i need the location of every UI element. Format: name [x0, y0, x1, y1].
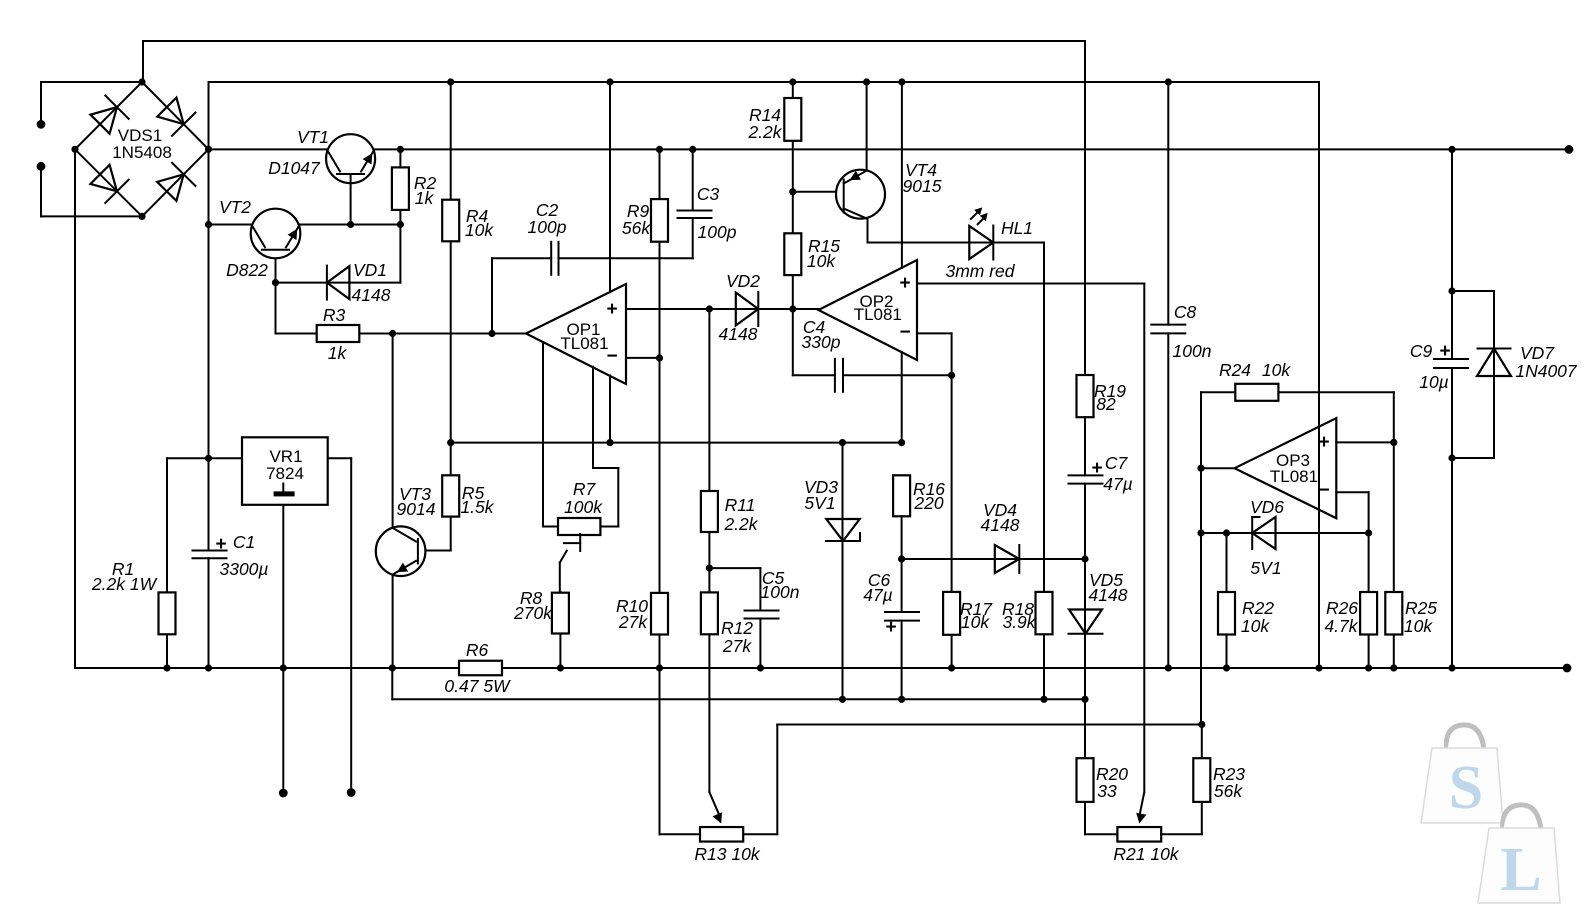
svg-text:−: − — [606, 346, 617, 367]
wire: R2 / VD1 column (x=400.4) — [399, 149, 401, 282]
diode VD5 — [1069, 610, 1103, 634]
wire: VT2 base lead — [275, 250, 277, 283]
svg-text:10k: 10k — [1241, 616, 1270, 636]
wire: OP1 null pin to R7 right — [593, 367, 618, 527]
resistor R26 — [1360, 592, 1377, 635]
diode VD4 — [995, 545, 1020, 573]
wire: OP1 + input to VD2/OP2 (y=309) — [626, 308, 819, 310]
svg-text:D1047: D1047 — [268, 158, 321, 178]
svg-text:10k: 10k — [1404, 616, 1433, 636]
svg-text:HL1: HL1 — [1001, 218, 1033, 238]
wire: OP2 V+ pin — [901, 82, 903, 268]
pot R21 wiper arrow — [1136, 813, 1146, 824]
wire: OP1 - input (y=358) — [626, 357, 660, 359]
wire: bridge minus column (x=75) — [74, 149, 76, 668]
resistor R14 — [784, 98, 801, 141]
bridge diode VDS1d (bottom to right) — [157, 163, 195, 201]
wire: R14/R15/C4 column (x=792.8) — [792, 82, 794, 375]
wire: R22 column — [1226, 533, 1228, 668]
op-amp OP1 — [526, 284, 626, 384]
capacitor C8 — [1151, 325, 1185, 334]
svg-text:VT2: VT2 — [219, 197, 251, 217]
svg-text:7824: 7824 — [266, 464, 304, 483]
wire: C9 column (x=1452) — [1451, 149, 1453, 668]
wire: R13 left to ground rail — [660, 668, 701, 834]
svg-text:VD1: VD1 — [353, 260, 387, 280]
svg-text:2.2k: 2.2k — [747, 122, 782, 142]
wire: VT4 emitter to +24V rail — [866, 82, 868, 171]
wire: VT1 base to VT2 emitter node — [350, 174, 352, 225]
resistor R11 — [701, 491, 718, 532]
svg-text:33: 33 — [1097, 781, 1117, 801]
wire: R7 wiper to R8 — [560, 534, 580, 668]
svg-text:C1: C1 — [233, 532, 255, 552]
svg-text:10k: 10k — [807, 251, 836, 271]
wire: VT3 collector column (x=392.6) — [392, 334, 394, 669]
wire: bottom ground rail — [75, 667, 1567, 669]
svg-text:C8: C8 — [1174, 302, 1197, 322]
svg-text:3300µ: 3300µ — [219, 559, 268, 579]
op-amp OP3 — [1235, 418, 1337, 518]
svg-text:+: + — [1318, 432, 1329, 453]
capacitor C4 — [835, 359, 843, 392]
svg-text:56k: 56k — [622, 218, 651, 238]
LED HL1 — [969, 207, 993, 259]
svg-text:47µ: 47µ — [863, 585, 893, 605]
wire: C5 branch — [709, 568, 760, 668]
svg-text:1N4007: 1N4007 — [1515, 361, 1578, 381]
svg-text:3.9k: 3.9k — [1002, 612, 1036, 632]
svg-text:27k: 27k — [618, 612, 648, 632]
svg-text:VD6: VD6 — [1250, 497, 1284, 517]
resistor R8 — [552, 593, 569, 634]
svg-text:10k: 10k — [465, 220, 494, 240]
terminal: ground rail right — [1563, 664, 1572, 673]
wire: VT4 collector to HL1 (y=242.5) — [868, 219, 1045, 243]
wire: R4/R5 column (x=450.7) — [418, 82, 451, 551]
wire: R24 loop — [1201, 392, 1394, 668]
svg-text:100p: 100p — [698, 222, 737, 242]
svg-text:4148: 4148 — [1089, 585, 1128, 605]
terminal: AC input 1 — [37, 120, 46, 129]
wire: OP3 - input to R26 — [1336, 492, 1368, 668]
resistor R24 — [1235, 384, 1278, 401]
svg-text:10µ: 10µ — [1419, 372, 1449, 392]
svg-text:2.2k: 2.2k — [723, 514, 758, 534]
capacitor C7 — [1069, 475, 1103, 483]
svg-text:47µ: 47µ — [1103, 474, 1133, 494]
wire: OP1 V- pin to bus — [609, 375, 611, 442]
svg-text:VT1: VT1 — [297, 127, 329, 147]
wire: C3 column (x=692.7) — [692, 149, 694, 258]
resistor R5 — [442, 475, 459, 516]
svg-text:9015: 9015 — [903, 176, 942, 196]
svg-text:+: + — [885, 617, 896, 638]
resistor R25 — [1385, 592, 1402, 635]
wire: AC input terminal 2 to bridge bottom — [41, 166, 142, 216]
bridge diode VDS1c (left to bottom) — [90, 165, 128, 203]
resistor R16 — [893, 475, 910, 516]
wire: VD4 row (y=559) — [902, 558, 1085, 560]
wire: R11/R12 column to R13 wiper (x=709.4) — [709, 309, 719, 816]
diode VD6 (zener) — [1252, 517, 1275, 549]
wire: OP2 + input to R21 wiper — [917, 284, 1144, 816]
svg-text:+: + — [215, 534, 226, 555]
wire: OP3 + input — [1336, 441, 1394, 443]
svg-text:+: + — [899, 273, 910, 294]
svg-text:S: S — [1449, 754, 1483, 822]
bridge diode VDS1a (left to top) — [90, 96, 128, 134]
resistor R3 — [317, 325, 360, 342]
wire: VT2 base down to R3 — [275, 283, 277, 334]
wire: OP2 V- pin — [901, 352, 903, 442]
diode VD1 — [327, 266, 350, 300]
transistor VT1 — [326, 134, 375, 183]
svg-text:3mm red: 3mm red — [945, 261, 1015, 281]
wire: second bottom rail (y=699.3) — [392, 668, 1085, 699]
svg-text:R25: R25 — [1405, 598, 1437, 618]
capacitor C2 — [551, 242, 558, 275]
resistor R2 — [392, 167, 409, 210]
wire: VD6 row (y=533) — [1201, 532, 1369, 534]
svg-text:100n: 100n — [761, 582, 800, 602]
svg-text:82: 82 — [1096, 394, 1116, 414]
svg-text:4148: 4148 — [981, 515, 1020, 535]
wire: R13 right to R23 node — [743, 725, 1202, 835]
wire: C7/VD5/R20 column (x=1085) — [1085, 484, 1117, 835]
svg-text:100k: 100k — [564, 497, 603, 517]
diode VD3 (zener) — [826, 519, 860, 541]
transistor VT3 — [376, 526, 426, 576]
terminal: AC input 2 — [37, 162, 46, 171]
wire: HL1 cathode down to R18 (x=1044) — [1043, 243, 1045, 700]
svg-text:−: − — [899, 322, 910, 343]
resistor R22 — [1218, 592, 1235, 635]
svg-text:4148: 4148 — [719, 324, 758, 344]
svg-text:TL081: TL081 — [560, 334, 608, 353]
wire: output rail (y=149.5) — [209, 148, 1570, 150]
svg-text:4.7k: 4.7k — [1324, 616, 1358, 636]
wire: R19 to C7 — [1084, 417, 1086, 475]
wire: OP1 V+ pin to +24V rail — [609, 82, 611, 292]
resistor R23 — [1193, 758, 1210, 802]
wire: VR1 output to terminal — [328, 458, 352, 792]
svg-text:5V1: 5V1 — [804, 493, 835, 513]
svg-text:2.2k 1W: 2.2k 1W — [91, 574, 158, 594]
svg-text:R11: R11 — [725, 495, 756, 515]
svg-text:1N5408: 1N5408 — [112, 143, 172, 162]
svg-text:TL081: TL081 — [1270, 467, 1318, 486]
svg-text:270k: 270k — [513, 603, 553, 623]
svg-text:−: − — [1318, 480, 1329, 501]
wire: R3 row to OP1 output (y=333.5) — [276, 333, 527, 335]
wire: VD1 row (y=282.6) — [276, 282, 401, 284]
svg-text:R12: R12 — [721, 618, 753, 638]
wire: bridge top to +40V top rail riser — [142, 41, 144, 82]
wire: VR1 input node — [167, 457, 242, 459]
wire: +24V rail right drop to bottom rail — [1318, 82, 1320, 668]
svg-text:330p: 330p — [802, 332, 841, 352]
terminal: VR1 ground output — [279, 789, 288, 798]
wire: +24V rail (y=82) — [209, 81, 1320, 83]
wire: VD3 column (x=842.5) — [842, 443, 844, 700]
resistor R7 — [558, 518, 600, 535]
wire: OP1 null pin to R7 left — [543, 342, 558, 527]
svg-text:R3: R3 — [323, 305, 346, 325]
wire: negative bus (y=442.6) — [451, 442, 902, 444]
op-amp OP2 — [819, 260, 918, 360]
resistor R9 — [651, 199, 668, 242]
resistor R18 — [1036, 592, 1053, 634]
svg-text:+: + — [1091, 458, 1102, 479]
capacitor C5 — [745, 611, 779, 619]
resistor R20 — [1077, 758, 1094, 802]
svg-text:9014: 9014 — [397, 499, 436, 519]
wire: C2 feedback row (y=258.3) — [492, 258, 693, 333]
wire: top rail (+40V unregulated) — [143, 40, 1085, 42]
wire: top rail drop to R19 — [1084, 41, 1086, 375]
svg-text:R13 10k: R13 10k — [694, 844, 760, 864]
resistor R17 — [943, 592, 960, 635]
pot R21 — [1117, 827, 1161, 842]
svg-text:220: 220 — [913, 493, 943, 513]
svg-text:VD7: VD7 — [1520, 343, 1555, 363]
svg-text:1.5k: 1.5k — [460, 497, 494, 517]
resistor R10 — [651, 593, 668, 635]
svg-text:0.47 5W: 0.47 5W — [444, 676, 511, 696]
resistor R15 — [784, 233, 801, 275]
resistor R1 — [159, 592, 176, 634]
voltage regulator VR1 — [242, 437, 328, 505]
transistor VT2 — [251, 209, 301, 259]
svg-text:R24: R24 — [1219, 360, 1251, 380]
wire: AC input terminal 1 to bridge top — [41, 82, 142, 124]
svg-text:R6: R6 — [466, 640, 489, 660]
wire: VR1 ground pin to terminal — [282, 505, 284, 793]
wire: R16 bottom to C6/VD4 node — [901, 516, 903, 612]
svg-text:C3: C3 — [697, 184, 720, 204]
wire: C4 row (y=375.3) — [793, 374, 952, 376]
capacitor C9 — [1434, 359, 1468, 368]
wire: OP3 output column (x=1201) — [1201, 392, 1235, 724]
wire: R1 column — [166, 458, 168, 668]
svg-text:C7: C7 — [1105, 453, 1129, 473]
terminal: output rail right — [1565, 145, 1574, 154]
svg-text:R22: R22 — [1242, 598, 1274, 618]
wire: C6 bottom to second rail — [901, 621, 903, 700]
capacitor C1 — [193, 551, 227, 559]
svg-text:L: L — [1500, 836, 1541, 904]
wire: R9/R10 column (x=659.5) — [659, 149, 661, 668]
svg-text:10k: 10k — [961, 612, 990, 632]
wire: VT4 base lead — [793, 191, 844, 193]
svg-text:R26: R26 — [1326, 598, 1358, 618]
svg-text:R21 10k: R21 10k — [1113, 844, 1179, 864]
diode VD2 — [736, 292, 759, 326]
svg-text:1k: 1k — [328, 343, 348, 363]
svg-text:VD2: VD2 — [726, 271, 760, 291]
pot R13 wiper arrow — [713, 812, 723, 823]
svg-text:+: + — [606, 299, 617, 320]
resistor R4 — [442, 200, 459, 242]
svg-text:100p: 100p — [528, 217, 567, 237]
resistor R6 — [459, 661, 502, 676]
pot R13 — [700, 827, 743, 842]
resistor R19 — [1077, 375, 1094, 417]
bridge diode VDS1b (top to right) — [157, 98, 195, 136]
wire: R21 right to R23 — [1161, 725, 1202, 835]
svg-text:27k: 27k — [722, 636, 752, 656]
svg-text:+: + — [1439, 341, 1450, 362]
svg-text:TL081: TL081 — [854, 305, 902, 324]
terminal: +24V output — [347, 788, 356, 797]
wire: C8 column (x=1168.3) — [1167, 82, 1169, 668]
wire: bridge plus column (x=208.5) — [208, 82, 210, 668]
svg-text:R7: R7 — [573, 479, 597, 499]
resistor R12 — [701, 592, 718, 634]
capacitor C3 — [678, 211, 712, 219]
svg-text:C9: C9 — [1410, 341, 1433, 361]
capacitor C6 — [885, 612, 919, 621]
svg-text:56k: 56k — [1214, 781, 1243, 801]
component value labels — [91, 105, 1578, 864]
wire: VD7 branch — [1452, 291, 1494, 458]
diode VD7 — [1477, 349, 1511, 377]
transistor VT4 — [836, 170, 885, 219]
wire: VT2 collector-emitter row (y=224.5) — [209, 224, 401, 226]
bridge rectifier VDS1 diamond — [75, 82, 209, 216]
wire: OP2 - input to C4/R17 (x=951.6) — [917, 333, 952, 668]
svg-text:4148: 4148 — [352, 285, 391, 305]
svg-text:100n: 100n — [1173, 341, 1212, 361]
watermark logo — [1421, 725, 1560, 904]
svg-text:5V1: 5V1 — [1250, 558, 1281, 578]
svg-text:1k: 1k — [415, 188, 435, 208]
svg-text:10k: 10k — [1262, 360, 1291, 380]
svg-text:D822: D822 — [226, 260, 268, 280]
